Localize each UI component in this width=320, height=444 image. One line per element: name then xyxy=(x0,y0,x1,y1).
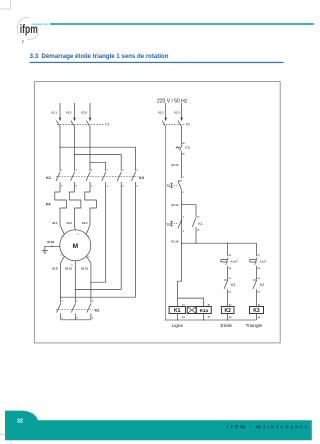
svg-text:4: 4 xyxy=(122,184,124,187)
svg-text:13: 13 xyxy=(197,216,200,218)
svg-text:67: 67 xyxy=(257,255,260,257)
svg-text:V1: V1 xyxy=(77,234,79,236)
svg-text:1: 1 xyxy=(183,177,185,179)
svg-text:55: 55 xyxy=(229,255,232,257)
svg-text:3: 3 xyxy=(76,301,78,303)
svg-text:14: 14 xyxy=(197,229,200,232)
svg-text:62: 62 xyxy=(229,291,232,293)
svg-text:S1: S1 xyxy=(167,184,171,188)
svg-text:K1a: K1a xyxy=(200,308,209,313)
svg-text:61: 61 xyxy=(257,278,260,280)
svg-text:01.12: 01.12 xyxy=(171,203,178,207)
svg-text:01.16: 01.16 xyxy=(171,240,178,244)
svg-text:Ligne: Ligne xyxy=(172,323,184,328)
svg-text:02.3: 02.3 xyxy=(82,221,88,225)
svg-text:A2: A2 xyxy=(229,316,233,319)
svg-text:K1aT: K1aT xyxy=(260,259,267,263)
svg-text:06: 06 xyxy=(182,154,185,156)
svg-text:W1: W1 xyxy=(87,236,90,238)
svg-text:220 V / 50 Hz: 220 V / 50 Hz xyxy=(157,98,188,104)
svg-text:2: 2 xyxy=(107,185,109,187)
svg-text:2: 2 xyxy=(61,185,63,187)
svg-text:1: 1 xyxy=(62,301,64,303)
svg-text:5: 5 xyxy=(137,170,139,172)
svg-text:68: 68 xyxy=(257,268,260,270)
svg-text:03.98: 03.98 xyxy=(47,240,54,244)
svg-text:02.10: 02.10 xyxy=(65,266,72,270)
svg-text:6: 6 xyxy=(92,317,94,319)
svg-text:K2: K2 xyxy=(95,309,100,313)
svg-text:K3: K3 xyxy=(253,308,260,314)
svg-text:K1: K1 xyxy=(198,222,202,226)
svg-text:61: 61 xyxy=(229,278,232,280)
svg-text:01.2: 01.2 xyxy=(66,111,72,115)
svg-text:y: y xyxy=(22,39,25,44)
svg-text:Démarrage étoile triangle 1 se: Démarrage étoile triangle 1 sens de rota… xyxy=(42,53,169,60)
svg-text:6: 6 xyxy=(91,185,93,187)
svg-text:02.8: 02.8 xyxy=(52,266,58,270)
svg-text:02.2: 02.2 xyxy=(67,221,73,225)
svg-text:K1aT: K1aT xyxy=(231,259,238,263)
svg-text:V2: V2 xyxy=(88,257,90,259)
svg-text:K2: K2 xyxy=(224,308,231,314)
svg-text:M: M xyxy=(72,243,78,250)
svg-text:U2: U2 xyxy=(71,265,73,267)
svg-text:3: 3 xyxy=(122,170,124,172)
svg-text:5: 5 xyxy=(92,301,94,303)
svg-text:F3: F3 xyxy=(185,146,189,150)
svg-text:6: 6 xyxy=(137,185,139,187)
svg-text:K3: K3 xyxy=(139,176,144,180)
svg-text:A2: A2 xyxy=(258,316,262,319)
svg-text:W2: W2 xyxy=(60,255,63,257)
svg-text:32: 32 xyxy=(17,418,23,424)
svg-text:A2: A2 xyxy=(208,316,212,319)
svg-text:F1: F1 xyxy=(105,122,109,126)
svg-text:U1: U1 xyxy=(61,236,63,238)
svg-text:K1: K1 xyxy=(174,308,181,314)
svg-text:1: 1 xyxy=(107,170,109,172)
svg-text:02.12: 02.12 xyxy=(81,266,88,270)
svg-text:01.3: 01.3 xyxy=(82,111,88,115)
svg-text:Triangle: Triangle xyxy=(246,323,263,328)
svg-text:S2: S2 xyxy=(167,222,171,226)
svg-text:2: 2 xyxy=(183,192,185,194)
svg-text:3: 3 xyxy=(183,216,185,218)
svg-text:62: 62 xyxy=(257,291,260,293)
svg-text:A2: A2 xyxy=(182,316,186,319)
svg-text:F2: F2 xyxy=(186,122,190,126)
svg-text:01.1: 01.1 xyxy=(158,111,164,115)
svg-text:2: 2 xyxy=(62,317,64,319)
svg-text:3.3: 3.3 xyxy=(30,53,39,60)
svg-text:K1: K1 xyxy=(46,176,51,180)
svg-text:02.1: 02.1 xyxy=(52,221,58,225)
svg-text:5: 5 xyxy=(91,170,93,172)
svg-text:01.3: 01.3 xyxy=(174,111,180,115)
svg-text:01.10: 01.10 xyxy=(171,163,178,167)
svg-text:4: 4 xyxy=(76,184,78,187)
svg-text:01.1: 01.1 xyxy=(52,111,58,115)
svg-text:1: 1 xyxy=(61,170,63,172)
svg-text:56: 56 xyxy=(229,268,232,270)
svg-text:FORMATION: FORMATION xyxy=(32,23,48,26)
svg-text:3: 3 xyxy=(76,170,78,172)
svg-text:F4: F4 xyxy=(46,203,51,207)
svg-text:K3: K3 xyxy=(231,283,235,287)
svg-text:4: 4 xyxy=(183,230,185,233)
svg-text:K2: K2 xyxy=(260,283,264,287)
svg-text:Etoile: Etoile xyxy=(221,323,233,328)
svg-text:4: 4 xyxy=(76,316,78,319)
